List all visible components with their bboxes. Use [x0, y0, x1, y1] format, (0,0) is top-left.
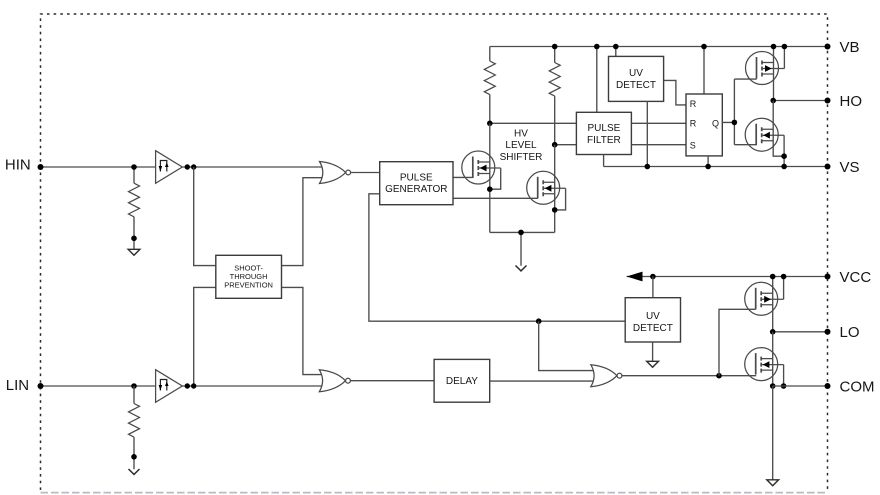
- wire NOR1 output to pulse generator: [351, 172, 380, 174]
- resistor R1: [484, 61, 495, 95]
- node HO junction: [770, 98, 776, 104]
- wire HO rail: [773, 100, 827, 102]
- wire M3 body loop to VB: [783, 47, 785, 69]
- node M5 body on VCC: [781, 274, 787, 280]
- svg-text:UV: UV: [629, 68, 643, 79]
- pin VCC: [825, 274, 831, 280]
- VCC arrow: [627, 272, 643, 282]
- wire latch VB pin: [703, 47, 705, 95]
- node R2 top on VB rail: [552, 44, 558, 50]
- node UV1 top: [613, 44, 619, 50]
- wire M4 drain-source vertical: [773, 101, 784, 157]
- node M1 source-body: [487, 186, 493, 192]
- svg-text:FILTER: FILTER: [587, 135, 621, 146]
- UV detect box (high side): [609, 56, 664, 101]
- svg-text:HO: HO: [840, 93, 863, 110]
- wire shoot-through out to NOR1 lower input: [282, 178, 326, 266]
- node latch top: [701, 44, 707, 50]
- pulse filter box: [576, 112, 631, 154]
- node M4 source-body: [781, 153, 787, 159]
- node M3 drain on VB: [771, 44, 777, 50]
- wire NOR2 output to delay: [350, 380, 434, 382]
- node M6 body on COM: [781, 383, 787, 389]
- resistor R2: [549, 63, 560, 97]
- wire PF output S to latch: [631, 144, 686, 146]
- transistor M6 (LO pull-down): [745, 348, 784, 381]
- wire COM to ground: [772, 386, 774, 480]
- wire S node to pulse filter input S: [555, 144, 577, 146]
- pin LIN: [38, 383, 44, 389]
- svg-text:UV: UV: [646, 311, 660, 322]
- schmitt buffer U2 (LIN): [156, 370, 183, 403]
- wire LO rail: [773, 331, 828, 333]
- wire shoot-through right lower to NOR2 upper input: [282, 287, 326, 374]
- wire M5 gate branch: [719, 309, 756, 375]
- pin VB: [825, 44, 831, 50]
- svg-text:R: R: [690, 99, 697, 109]
- svg-text:LO: LO: [840, 324, 860, 341]
- wire feedback branch to NOR3 upper input: [539, 321, 596, 370]
- delay box: [434, 359, 490, 402]
- pulse generator box: [380, 162, 453, 205]
- svg-text:HIN: HIN: [5, 157, 31, 174]
- svg-text:VCC: VCC: [840, 269, 872, 286]
- wire U2 output to NOR2: [182, 385, 325, 387]
- node R3-ground: [131, 236, 137, 242]
- node U1 out A: [185, 164, 190, 169]
- node R4-ground: [131, 454, 137, 460]
- resistor R4: [129, 404, 140, 438]
- wire M5 drain-source vertical: [772, 277, 774, 332]
- transistor M3 (HO pull-up): [746, 52, 785, 85]
- wire PF output R to latch: [631, 122, 686, 124]
- wire R4 leads: [133, 386, 135, 469]
- node PF top: [594, 44, 600, 50]
- node U2 out A: [185, 383, 190, 388]
- wire M1 drain-source vertical: [489, 123, 491, 232]
- wire M6 drain-source vertical: [772, 332, 774, 386]
- wire U1 output to NOR1: [182, 166, 325, 168]
- wire HIN branch to shoot-through box: [194, 167, 216, 266]
- node M3 body on VB: [782, 44, 788, 50]
- node HIN-R3 junction: [131, 164, 137, 170]
- wire M4 body loop: [783, 135, 785, 166]
- wire UV2 ground lead: [652, 342, 654, 361]
- wire R3 branch lead: [133, 167, 135, 249]
- wire shoot-through left lower to LIN node: [194, 287, 216, 386]
- ground symbol (level shifter): [516, 266, 527, 271]
- node M5 drain on VCC: [770, 274, 776, 280]
- node UV1 gnd on VS: [645, 164, 651, 170]
- wire HIN input: [41, 166, 156, 168]
- UV detect box (low side): [625, 298, 680, 342]
- node U1 out B: [191, 164, 196, 169]
- node UV2 top on VCC: [650, 274, 656, 280]
- pin VS: [825, 164, 831, 170]
- svg-text:S: S: [690, 140, 696, 150]
- svg-text:PULSE: PULSE: [400, 173, 433, 184]
- node U2 out B: [191, 383, 196, 388]
- svg-text:GENERATOR: GENERATOR: [385, 184, 447, 195]
- wire M1 body loop: [490, 168, 501, 189]
- resistor R3: [129, 183, 140, 217]
- NOR gate G1 (high side): [320, 162, 351, 184]
- svg-text:PREVENTION: PREVENTION: [224, 281, 273, 290]
- pin HO: [825, 98, 831, 104]
- wire UV1 output to latch R: [664, 80, 686, 105]
- wire M5 body loop to VCC: [783, 277, 785, 300]
- svg-text:LEVEL: LEVEL: [505, 140, 537, 151]
- wire UV1 ground pin to VS: [646, 101, 648, 166]
- node Q junction: [732, 120, 738, 126]
- svg-text:HV: HV: [514, 129, 528, 140]
- wire latch bottom to VS: [707, 156, 709, 167]
- node M6 source on COM: [770, 383, 776, 389]
- node M1 drain: [487, 121, 493, 127]
- wire pulse gen out to M2 gate: [453, 197, 538, 199]
- wire NOR3 output to driver gates: [622, 375, 756, 377]
- transistor M4 (HO pull-down): [745, 118, 784, 151]
- wire pulse filter VB pin: [596, 47, 598, 113]
- ground symbol (HIN pulldown): [128, 249, 140, 255]
- pin LO: [825, 329, 831, 335]
- svg-text:SHIFTER: SHIFTER: [500, 152, 543, 163]
- pin COM: [825, 383, 831, 389]
- node source rail center: [518, 230, 524, 236]
- wire COM rail: [773, 385, 828, 387]
- wire R1 leads: [489, 47, 491, 124]
- node M2 source-body: [552, 207, 558, 213]
- wire M2 drain-source vertical: [554, 145, 556, 233]
- svg-text:PULSE: PULSE: [588, 123, 621, 134]
- wire latch Q output: [722, 79, 756, 145]
- node LO junction: [770, 329, 776, 335]
- ground symbol (COM): [767, 480, 779, 486]
- wire M6 body loop: [783, 365, 785, 386]
- NOR gate G2 (low side): [319, 370, 350, 392]
- svg-text:VS: VS: [840, 159, 860, 176]
- svg-text:LIN: LIN: [6, 377, 29, 394]
- svg-text:DETECT: DETECT: [633, 323, 673, 334]
- wire VS rail: [604, 155, 828, 167]
- pin HIN: [38, 164, 44, 170]
- wire R2 leads: [554, 47, 556, 145]
- wire level shifter source rail: [490, 232, 555, 265]
- wire VCC rail: [627, 276, 828, 278]
- node LIN-R4 junction: [131, 383, 137, 389]
- wire delay output to NOR3: [490, 380, 596, 382]
- schmitt buffer U1 (HIN): [156, 151, 183, 184]
- shoot-through prevention box: [216, 255, 282, 298]
- wire M3 drain-source vertical: [773, 47, 775, 101]
- node feedback junction: [536, 318, 542, 324]
- ground symbol (LIN pulldown): [129, 469, 140, 474]
- wire R node to pulse filter input R: [490, 122, 577, 124]
- svg-text:COM: COM: [840, 378, 875, 395]
- latch box U3: [686, 94, 722, 156]
- transistor M2 (HV level shift): [527, 171, 566, 204]
- svg-text:VB: VB: [840, 39, 860, 56]
- node M2 drain: [552, 142, 558, 148]
- svg-text:DELAY: DELAY: [446, 376, 478, 387]
- wire M2 body loop: [555, 188, 566, 210]
- wire pulse gen out to M1 gate: [453, 176, 473, 178]
- NOR gate G3 (LO drive): [591, 365, 622, 387]
- node latch gnd on VS: [705, 164, 711, 170]
- transistor M5 (LO pull-up): [745, 282, 784, 315]
- svg-text:Q: Q: [712, 118, 719, 128]
- wire VB rail: [490, 46, 828, 48]
- node driver gate junction: [716, 373, 722, 379]
- wire UV1 VB pin: [615, 47, 617, 57]
- wire LIN input: [41, 385, 156, 387]
- wire pulse gen feedback to UV2 and NOR3: [369, 194, 625, 321]
- node M4 on VS rail: [781, 164, 787, 170]
- wire UV2 VCC pin: [652, 277, 654, 298]
- svg-text:R: R: [690, 119, 697, 129]
- svg-text:DETECT: DETECT: [616, 80, 656, 91]
- ground symbol (UV2): [647, 361, 659, 367]
- transistor M1 (HV level shift): [462, 151, 501, 184]
